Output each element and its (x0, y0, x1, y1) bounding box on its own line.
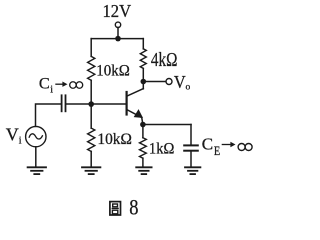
wire: collector node down to transistor (142, 82, 144, 89)
svg-text:C: C (202, 135, 213, 154)
svg-text:10kΩ: 10kΩ (97, 131, 131, 148)
terminal circle Vo (166, 79, 172, 85)
junction dot: base node (88, 101, 94, 107)
resistor R1 10k upper bias (88, 39, 95, 104)
wire: emitter node to CE capacitor (143, 124, 191, 126)
junction dot: supply rail (115, 36, 121, 42)
ground under R2 (82, 167, 100, 174)
ground under source (28, 167, 46, 174)
resistor RC 4k collector (140, 39, 146, 82)
svg-text:V: V (6, 124, 19, 144)
source Vi sine generator (26, 126, 46, 166)
svg-text:E: E (214, 144, 221, 158)
svg-text:o: o (186, 82, 191, 92)
wire: 12V terminal drop to rail (117, 28, 119, 39)
svg-text:i: i (19, 136, 22, 147)
junction dot: collector node (141, 79, 147, 85)
svg-text:i: i (50, 84, 53, 95)
svg-text:1kΩ: 1kΩ (149, 141, 175, 158)
wire: source riser and to Ci (36, 104, 61, 126)
arrow of Ci label (55, 82, 67, 87)
arrow of CE label (222, 142, 236, 147)
svg-text:C: C (39, 74, 50, 93)
infinity of Ci label (70, 82, 83, 89)
svg-text:8: 8 (129, 196, 138, 220)
capacitor CE bypass (184, 125, 198, 167)
ground under CE (185, 167, 200, 174)
ground under RE (136, 167, 151, 174)
resistor RE 1k emitter (140, 125, 147, 167)
wire: base wire (91, 103, 126, 105)
wire: collector node to Vo terminal (143, 81, 166, 83)
wire: Ci to base node (66, 103, 91, 105)
resistor R2 10k lower bias (88, 104, 95, 167)
svg-text:4kΩ: 4kΩ (151, 49, 178, 71)
transistor Q1 NPN (127, 89, 144, 125)
svg-text:V: V (174, 72, 186, 92)
svg-text:10kΩ: 10kΩ (96, 62, 130, 79)
caption: figure glyph (CJK drawn manually) (110, 202, 121, 215)
infinity of CE label (238, 144, 252, 151)
junction dot: emitter node (140, 122, 146, 128)
wire: top supply rail (91, 38, 143, 40)
svg-text:12V: 12V (103, 1, 132, 21)
capacitor Ci input coupling (62, 95, 66, 111)
terminal circle 12V supply (115, 22, 120, 27)
